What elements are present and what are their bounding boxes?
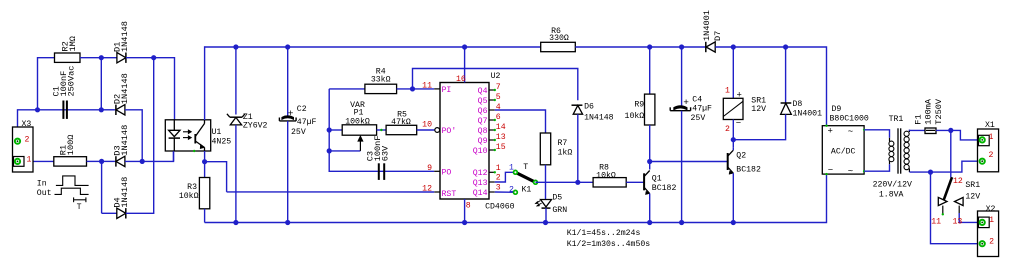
svg-text:10kΩ: 10kΩ: [625, 111, 645, 121]
svg-text:R7: R7: [558, 139, 568, 148]
connector X3: [13, 127, 34, 172]
fuse F1: [925, 128, 936, 134]
svg-text:PO: PO: [442, 168, 452, 177]
svg-text:Out: Out: [37, 189, 52, 198]
svg-text:D7: D7: [713, 31, 723, 41]
diode D1: [101, 57, 117, 59]
resistor R3: [204, 162, 206, 178]
svg-text:T: T: [523, 163, 528, 172]
pin stubs left: [434, 88, 440, 90]
svg-text:X2: X2: [986, 205, 996, 214]
transformer TR1 primary: [889, 138, 891, 142]
capacitor C1: [62, 101, 64, 119]
bridge rectifier D9 B80C1000: [822, 126, 864, 174]
svg-text:100kΩ: 100kΩ: [345, 116, 370, 126]
diode D6: [572, 104, 583, 106]
svg-text:P1: P1: [354, 108, 364, 117]
jumper K1 contacts: [514, 170, 518, 174]
node opto emitter: [202, 159, 207, 164]
svg-text:12V: 12V: [751, 105, 766, 114]
RST pin stub: [434, 191, 440, 193]
svg-text:12: 12: [953, 177, 963, 186]
svg-text:C2: C2: [297, 105, 307, 114]
diode D8 freewheel: [785, 47, 787, 103]
svg-text:−: −: [828, 166, 833, 176]
LED D5 GRN: [541, 200, 552, 207]
svg-text:4N25: 4N25: [212, 138, 232, 147]
wire R4 to PI pin with feedback tap: [397, 88, 435, 90]
svg-text:−: −: [736, 119, 741, 129]
svg-text:R9: R9: [634, 101, 644, 110]
svg-text:R3: R3: [187, 183, 197, 192]
svg-text:1N4148: 1N4148: [120, 21, 130, 52]
pin 8 ground: [464, 199, 466, 223]
svg-text:100mA: 100mA: [924, 98, 934, 125]
svg-text:PO': PO': [442, 126, 457, 136]
svg-text:BC182: BC182: [736, 165, 761, 174]
svg-text:X3: X3: [22, 120, 32, 129]
node A vertical D1-D2: [100, 58, 102, 110]
resistor R8: [593, 178, 626, 187]
svg-text:Q4: Q4: [478, 87, 488, 96]
svg-text:5: 5: [496, 93, 501, 102]
feedback wire PI to D6: [413, 69, 578, 101]
wire Q1 emitter to ground: [649, 194, 651, 223]
wire secondary to fuse: [910, 129, 926, 132]
wire R2 branch vertical: [38, 58, 55, 110]
svg-text:1N4148: 1N4148: [120, 125, 130, 156]
jumper K1 wire from Q14: [495, 191, 516, 193]
svg-text:1N4001: 1N4001: [793, 110, 823, 119]
svg-text:25V: 25V: [691, 114, 706, 123]
svg-text:F1: F1: [914, 114, 924, 124]
svg-text:2: 2: [989, 237, 994, 246]
rail R6 to D7: [575, 46, 706, 48]
resistor R2: [55, 53, 81, 62]
resistor R7: [540, 133, 550, 165]
rail junction C2: [285, 44, 290, 49]
jumper K1 wire from Q13: [495, 172, 516, 182]
wire R8 to Q1 base: [626, 181, 644, 183]
svg-text:14: 14: [496, 123, 506, 132]
connector X2: [978, 211, 999, 257]
svg-text:Q14: Q14: [473, 189, 488, 198]
svg-text:8: 8: [466, 202, 471, 211]
P1 wiper: [329, 150, 360, 152]
svg-text:Q8: Q8: [478, 127, 488, 136]
svg-text:CD4060: CD4060: [485, 203, 515, 212]
svg-text:TR1: TR1: [889, 115, 904, 124]
diode D7: [705, 42, 707, 52]
wire bottom net to X2 pin2: [931, 172, 980, 244]
+supply rail: [205, 46, 541, 48]
svg-text:11: 11: [422, 82, 432, 91]
ground rail: [205, 174, 827, 222]
svg-text:B80C1000: B80C1000: [830, 115, 869, 124]
svg-text:SR1: SR1: [965, 181, 980, 190]
jumper K1 shorting bar: [515, 172, 535, 182]
svg-text:1: 1: [989, 133, 994, 142]
svg-text:10kΩ: 10kΩ: [596, 170, 616, 180]
capacitor C2 electrolytic: [287, 47, 289, 117]
svg-text:2: 2: [25, 136, 30, 145]
capacitor C3 in PO line: [378, 170, 434, 172]
wire coil to Q2 collector: [732, 120, 734, 148]
rail D7 to bridge: [715, 47, 826, 126]
wire R2 to node A: [80, 57, 101, 59]
resistor R9: [649, 47, 651, 94]
svg-text:~: ~: [848, 127, 853, 137]
svg-text:Q12: Q12: [473, 169, 488, 178]
svg-text:330Ω: 330Ω: [549, 34, 569, 43]
wire secondary bottom: [910, 161, 980, 172]
optocoupler U1: [165, 120, 210, 151]
svg-text:K1: K1: [522, 185, 532, 194]
svg-text:Q5: Q5: [478, 97, 488, 106]
wire R9 to Q1 collector / Q2 base node: [649, 125, 651, 170]
svg-text:RST: RST: [442, 190, 457, 199]
wire fuse node to SR1 contact: [950, 130, 952, 177]
rail junction Z1: [233, 44, 238, 49]
diode D3: [102, 160, 115, 162]
svg-text:1kΩ: 1kΩ: [558, 148, 573, 158]
svg-text:12V: 12V: [965, 193, 980, 202]
transformer TR1 secondary: [908, 130, 910, 132]
resistor R5: [386, 125, 417, 134]
svg-text:10: 10: [422, 121, 432, 130]
svg-text:13: 13: [496, 133, 506, 142]
svg-text:13: 13: [953, 217, 963, 226]
svg-text:In: In: [37, 179, 47, 188]
diode D2: [101, 109, 115, 111]
svg-text:Q1: Q1: [652, 174, 662, 183]
diode D4: [102, 212, 117, 214]
svg-text:Q6: Q6: [478, 107, 488, 116]
svg-text:BC182: BC182: [652, 184, 677, 193]
svg-text:2: 2: [509, 185, 514, 194]
wire R7 to D5: [545, 165, 547, 200]
svg-text:1: 1: [27, 156, 32, 165]
svg-text:D8: D8: [793, 100, 803, 109]
svg-text:47µF: 47µF: [297, 118, 317, 127]
transistor Q2 BC182: [727, 153, 729, 170]
wire Q2 emitter to ground: [732, 173, 734, 222]
svg-text:GRN: GRN: [552, 206, 567, 215]
svg-text:220V/12V: 220V/12V: [873, 180, 912, 190]
wire to optocoupler anode: [154, 58, 175, 120]
svg-text:16: 16: [456, 75, 466, 84]
svg-text:+: +: [737, 90, 742, 100]
svg-text:T: T: [77, 203, 82, 212]
potentiometer P1: [329, 129, 342, 131]
svg-text:+: +: [828, 126, 833, 136]
wire X3 pin1 to R1: [18, 160, 54, 162]
svg-text:Q7: Q7: [478, 117, 488, 126]
left osc rail: [329, 89, 378, 171]
wire opto cathode to D3 node: [173, 151, 175, 161]
svg-text:1N4148: 1N4148: [120, 73, 130, 104]
node D1-D4 junction: [151, 55, 156, 60]
wire R5 to PO' pin: [417, 129, 435, 131]
wire Q6 to R7: [495, 110, 546, 133]
svg-text:~: ~: [848, 166, 853, 176]
wire opto emitter down: [204, 151, 206, 162]
resistor R4: [329, 88, 365, 90]
svg-text:2: 2: [725, 125, 730, 134]
transformer TR1 core: [897, 128, 899, 173]
svg-text:C4: C4: [692, 95, 702, 104]
svg-text:100Ω: 100Ω: [66, 135, 76, 156]
connector X1: [978, 129, 999, 172]
svg-text:1: 1: [509, 163, 514, 172]
svg-text:D6: D6: [584, 102, 594, 111]
node junction R2/C1 branch: [35, 107, 40, 112]
wire bridge to transformer primary: [864, 130, 889, 138]
svg-text:D9: D9: [832, 105, 842, 114]
wire P1 to R5: [377, 129, 387, 131]
svg-text:1: 1: [989, 216, 994, 225]
svg-text:T250V: T250V: [934, 98, 944, 125]
zener Z1 ZY6V2: [235, 47, 237, 115]
svg-text:K1/1=45s..2m24s: K1/1=45s..2m24s: [567, 228, 641, 238]
svg-text:Q13: Q13: [473, 179, 488, 188]
rail resistor R6: [541, 42, 576, 51]
IC U2 CD4060 body: [440, 83, 489, 200]
svg-text:1: 1: [725, 87, 730, 96]
svg-text:ZY6V2: ZY6V2: [243, 121, 268, 130]
svg-text:D5: D5: [552, 194, 562, 203]
svg-text:250Vac: 250Vac: [66, 66, 76, 97]
capacitor C4 electrolytic: [681, 47, 683, 106]
wire emitter jog to RST row: [205, 162, 227, 192]
svg-text:47µF: 47µF: [692, 105, 712, 114]
svg-text:10kΩ: 10kΩ: [179, 191, 199, 201]
svg-text:Q2: Q2: [736, 152, 746, 161]
pin 16 supply: [464, 47, 466, 83]
svg-text:63V: 63V: [381, 145, 391, 161]
svg-text:33kΩ: 33kΩ: [371, 74, 391, 84]
svg-text:X1: X1: [985, 121, 995, 130]
svg-text:1N4148: 1N4148: [120, 177, 130, 208]
svg-text:1MΩ: 1MΩ: [68, 36, 78, 51]
svg-text:1: 1: [496, 164, 501, 173]
svg-text:2: 2: [989, 151, 994, 160]
svg-text:U2: U2: [491, 72, 501, 81]
svg-text:1N4148: 1N4148: [584, 113, 614, 122]
svg-text:11: 11: [931, 217, 941, 226]
wire R3 to ground rail: [204, 209, 206, 223]
svg-text:47kΩ: 47kΩ: [391, 117, 411, 127]
svg-text:7: 7: [496, 83, 501, 92]
svg-text:6: 6: [496, 113, 501, 122]
relay coil SR1: [732, 47, 734, 98]
svg-text:1N4001: 1N4001: [702, 10, 712, 41]
wire node to Q2 base: [650, 161, 728, 163]
transistor Q1 BC182: [643, 173, 645, 190]
svg-text:Q9: Q9: [478, 137, 488, 146]
relay contact SR1: [944, 177, 952, 200]
svg-text:PI: PI: [442, 86, 452, 95]
svg-text:Q10: Q10: [473, 147, 488, 156]
resistor R1: [54, 157, 87, 166]
svg-text:25V: 25V: [291, 128, 306, 137]
pin stubs right with unconnected ends: [489, 89, 495, 91]
wire RST line: [227, 191, 435, 193]
wire fuse to X1 pin1: [936, 130, 980, 140]
wire SR1 throw to X2 pin1: [959, 213, 979, 222]
svg-text:K1/2=1m30s..4m50s: K1/2=1m30s..4m50s: [567, 239, 651, 249]
svg-text:1.8VA: 1.8VA: [879, 190, 904, 199]
svg-text:AC/DC: AC/DC: [831, 146, 856, 156]
svg-text:9: 9: [427, 164, 432, 173]
wire X3 pin2 to top node: [18, 110, 102, 141]
wire K1 common to R8: [536, 181, 594, 183]
node B vertical D3-D4: [101, 161, 103, 213]
svg-text:15: 15: [496, 143, 506, 152]
wire R1 to node B: [87, 160, 102, 162]
svg-text:U1: U1: [212, 128, 222, 137]
wire opto collector to +rail: [204, 47, 207, 120]
